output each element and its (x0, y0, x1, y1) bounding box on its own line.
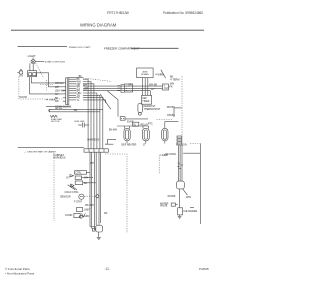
header title WIRING DIAGRAM (80, 23, 117, 28)
label door liner (20, 96, 27, 99)
svg-text:WH: WH (84, 177, 88, 180)
legend note 2 (53, 154, 65, 160)
label light shield (28, 54, 36, 58)
dashed machine compartment (181, 76, 183, 146)
dashed right liner (158, 155, 160, 174)
label water valve (160, 202, 169, 207)
control housing box (75, 171, 90, 175)
svg-text:MOTOR: MOTOR (51, 121, 60, 123)
svg-text:GY: GY (165, 87, 169, 90)
label 4 term (170, 78, 179, 81)
small box water valve (171, 203, 177, 206)
label thermostat (74, 201, 83, 204)
section divider left line (18, 46, 68, 48)
svg-text:Publication No. 5995524860: Publication No. 5995524860 (163, 11, 203, 15)
lamp L1 fresh food light (31, 60, 35, 64)
connector stub left (120, 117, 125, 121)
header publication number (163, 11, 203, 15)
svg-text:FRESH FOOD COMPT: FRESH FOOD COMPT (69, 47, 91, 49)
svg-text:RD: RD (55, 100, 59, 103)
svg-text:TIMER: TIMER (142, 101, 149, 103)
defrost limiter box (76, 208, 90, 212)
wire switch to harness (30, 73, 63, 94)
wire stub under labels (105, 143, 113, 145)
svg-text:• Non-Illustrated Parts: • Non-Illustrated Parts (5, 271, 35, 275)
label freezer light (143, 144, 146, 147)
wire below thermostat (125, 118, 148, 120)
svg-text:PK: PK (169, 86, 173, 89)
label 115v (186, 196, 192, 199)
section label freezer compartment (104, 47, 140, 51)
wire main top rail (69, 76, 83, 78)
svg-text:RUN CAP: RUN CAP (75, 120, 85, 123)
svg-text:PTC: PTC (148, 123, 153, 126)
label heater wire (85, 204, 94, 207)
footer functional parts (5, 267, 35, 275)
svg-text:WH: WH (170, 83, 174, 86)
svg-text:WIRING DIAGRAM: WIRING DIAGRAM (80, 23, 117, 28)
label near tube1 top (109, 129, 117, 132)
wire below valve (180, 189, 188, 208)
ground power (97, 237, 101, 239)
section label fresh food compartment (69, 47, 91, 49)
second label column (83, 84, 88, 92)
ADM board U1 (137, 68, 154, 78)
svg-text:WH-BK: WH-BK (168, 195, 176, 198)
capacitor C1 (75, 120, 90, 128)
svg-text:THERMOSTAT: THERMOSTAT (144, 108, 161, 111)
icemaker harness verticals (178, 145, 182, 181)
heater tube E2 (142, 126, 149, 144)
label ice maker (183, 210, 197, 213)
harness bundle verticals (88, 95, 103, 149)
wire mid rails (83, 86, 163, 91)
svg-text:WH: WH (55, 86, 59, 89)
cond fan box (65, 213, 85, 217)
water valve V1 (177, 181, 185, 189)
section divider right line (131, 47, 179, 49)
icemaker wire ticks (177, 165, 183, 168)
thermostat tube B1 (138, 103, 143, 115)
wires right of terminal board with labels (69, 78, 82, 102)
harness verticals below block (90, 152, 101, 225)
label evap fan (127, 121, 134, 124)
wire lamp to label (35, 61, 44, 63)
legend note text (24, 150, 57, 153)
diode symbol (70, 175, 74, 177)
svg-text:ICE MAKER: ICE MAKER (183, 210, 197, 213)
svg-text:ADM: ADM (143, 71, 148, 74)
tube junction rail (117, 125, 149, 127)
svg-text:SENSOR: SENSOR (60, 196, 71, 199)
svg-text:HARNESS: HARNESS (87, 139, 99, 142)
label right of timer (167, 106, 176, 109)
dashed fresh food liner (19, 77, 62, 100)
svg-text:OR: OR (128, 84, 132, 87)
cold control row 2 (75, 181, 96, 185)
label near plug top (104, 212, 108, 215)
diagonal wires (68, 185, 77, 190)
overload box OL1 (132, 122, 138, 126)
connector pair P1 (118, 85, 125, 93)
svg-text:IM CONN: IM CONN (165, 153, 176, 156)
triangle symbol (71, 184, 74, 187)
icemaker head box (178, 208, 183, 215)
svg-text:DEF: DEF (142, 98, 147, 100)
dashed door boundary (40, 80, 53, 91)
wires fan to bundle (50, 109, 103, 112)
svg-text:FRT17HB3JW: FRT17HB3JW (107, 11, 130, 15)
wire to right rail (183, 152, 200, 154)
svg-text:T-STAT: T-STAT (74, 201, 83, 204)
label cold control (65, 191, 80, 194)
label defrost heater (121, 144, 136, 147)
terminal board TB1 (66, 78, 69, 105)
defrost timer M1 (142, 95, 152, 104)
door switch plunger (17, 70, 22, 77)
label right of ADM (155, 74, 164, 77)
heater tube E1 defrost heater (124, 126, 130, 144)
svg-text:BK: BK (84, 182, 88, 185)
wire diagonal to dashed liner (100, 94, 111, 109)
wires fanning into harness bundle (83, 79, 106, 103)
label on fan wire (55, 108, 63, 110)
wire diagonal from ADM (161, 70, 166, 78)
wire right side branch (165, 108, 182, 122)
harness label on bundle (87, 139, 99, 142)
svg-text:OR-WH: OR-WH (55, 82, 64, 85)
svg-text:BK-WH: BK-WH (85, 204, 94, 207)
label right of overload (141, 123, 149, 126)
label 40 watt bulb (45, 60, 66, 63)
label evaporator fan motor (51, 118, 62, 123)
wire left rail to heaters (105, 139, 116, 144)
connector stubs right (177, 136, 182, 144)
svg-text:BR: BR (74, 109, 78, 112)
svg-text:4 TERM: 4 TERM (170, 78, 179, 81)
svg-text:COLD CTRL: COLD CTRL (65, 191, 80, 194)
svg-text:BK: BK (170, 76, 174, 79)
dashed plunger action line (36, 63, 44, 77)
label ptc (148, 123, 153, 126)
right rail vertical (199, 143, 201, 224)
svg-text:LIGHT: LIGHT (28, 54, 36, 58)
wire diagonal to evap connector (108, 91, 119, 117)
svg-text:LIMIT: LIMIT (84, 209, 91, 212)
label near dashed (161, 154, 169, 157)
svg-text:40 WATT LIGHT BULB: 40 WATT LIGHT BULB (45, 60, 66, 63)
svg-text:GY: GY (55, 93, 59, 96)
thermostat T1 (60, 194, 99, 199)
svg-text:-·-· DENOTES PART OF CABINET: -·-· DENOTES PART OF CABINET (24, 150, 57, 153)
svg-text:COND: COND (65, 214, 73, 217)
wire labels mid (128, 84, 173, 92)
dashed rail to machine compartment (157, 119, 173, 121)
wire lamp leads (30, 58, 33, 71)
cold control row 1 (66, 176, 93, 180)
svg-text:115V: 115V (186, 196, 192, 199)
ground icemaker (178, 216, 182, 218)
evap fan motor loop (48, 109, 51, 112)
svg-text:WH: WH (90, 162, 94, 165)
label conn block (55, 106, 72, 109)
svg-text:BK: BK (104, 212, 108, 215)
label mid right (177, 162, 181, 165)
long bottom rail fresh food (18, 146, 84, 148)
wires ADM to timer (143, 78, 151, 96)
label on bundle lower (90, 162, 94, 165)
svg-text:GY: GY (66, 177, 70, 180)
header model number (107, 11, 130, 15)
wire below icemaker (179, 215, 181, 216)
label ff liner (46, 99, 56, 101)
label heater 3 (176, 144, 187, 147)
light switch S1 (28, 71, 37, 77)
svg-text:-11-: -11- (105, 267, 110, 271)
header rule (11, 29, 204, 31)
connector box J2 (124, 84, 132, 92)
svg-text:DOOR: DOOR (20, 96, 27, 99)
svg-text:WH-BK: WH-BK (149, 84, 158, 87)
svg-text:BK-WH: BK-WH (109, 129, 117, 132)
evap fan shelf line (46, 105, 70, 107)
svg-text:DEF HEATER: DEF HEATER (121, 144, 136, 147)
svg-text:4 WIRE: 4 WIRE (155, 74, 164, 77)
wire labels into terminal board (55, 82, 65, 103)
cabinet ground symbol (79, 215, 90, 218)
svg-text:P/2008: P/2008 (199, 267, 209, 271)
svg-text:CTRL: CTRL (75, 173, 82, 175)
connector J3 (163, 84, 169, 90)
heater tube E3 (162, 121, 168, 143)
labels right side (165, 76, 175, 117)
dashed freezer liner bottom (105, 154, 127, 233)
dashed top of right rail (190, 142, 200, 144)
svg-text:VALVE: VALVE (160, 205, 168, 208)
footer code (199, 267, 209, 271)
wide connector block J4 (84, 149, 108, 152)
wires left of terminal board (63, 83, 66, 101)
footer page number (105, 267, 110, 271)
dashed left liner lower (53, 153, 55, 221)
svg-text:HARNESS: HARNESS (53, 156, 65, 159)
label icemaker wires (165, 153, 176, 156)
svg-text:BOARD: BOARD (141, 73, 149, 76)
label defrost thermostat (144, 105, 161, 111)
svg-text:GRN: GRN (84, 215, 90, 218)
power plug P2 (90, 224, 103, 237)
svg-text:GY: GY (151, 88, 155, 91)
fan motor winding (50, 115, 57, 117)
short mark left of rail (190, 206, 194, 208)
label wh above valve (168, 195, 176, 198)
dashed wire to freezer (83, 78, 111, 81)
